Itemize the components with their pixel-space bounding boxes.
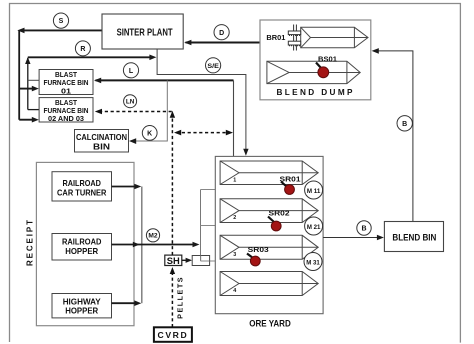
svg-text:K: K — [147, 131, 152, 138]
screw feeder icon BR01 — [288, 25, 300, 51]
wire M21 line — [201, 225, 305, 227]
node D circle — [214, 25, 229, 40]
svg-text:ORE YARD: ORE YARD — [249, 319, 291, 329]
wire M11 line — [201, 189, 305, 191]
stacker dot SR03 — [250, 256, 260, 266]
wire LN dashed line pellets to bin 02-03 — [95, 109, 173, 115]
CVRD box — [154, 327, 192, 342]
svg-text:2: 2 — [233, 215, 236, 221]
wire B line ore yard to blend bin — [323, 235, 384, 241]
node S circle — [53, 13, 68, 28]
wire M2 line from railroad hopper to ore yard collector — [112, 242, 200, 248]
svg-text:L: L — [129, 68, 134, 75]
wire receipt collector vertical — [141, 187, 143, 304]
svg-text:BLAST: BLAST — [55, 100, 78, 107]
ore pile bin 3 — [220, 235, 318, 259]
svg-text:S/E: S/E — [207, 63, 219, 70]
svg-text:CVRD: CVRD — [158, 330, 189, 340]
junction box — [192, 256, 209, 266]
wire D line from blend dump to sinter plant — [184, 40, 260, 46]
wire K arrow into calcination bin — [129, 138, 136, 144]
svg-text:SR03: SR03 — [248, 245, 269, 254]
conveyor pile BR01 — [301, 27, 368, 48]
svg-text:CALCINATION: CALCINATION — [76, 133, 127, 142]
calcination bin box — [75, 130, 129, 153]
svg-text:BLAST: BLAST — [55, 72, 78, 79]
svg-text:BS01: BS01 — [318, 54, 337, 63]
svg-text:RAILROAD: RAILROAD — [62, 179, 101, 188]
svg-text:SR02: SR02 — [269, 209, 290, 218]
blend dump box — [260, 20, 371, 100]
sinter plant box — [102, 14, 183, 49]
wire K stub from L line down to calcination bin — [133, 80, 167, 141]
wire R branch from bin 01 — [28, 79, 39, 81]
wire L riser down to ore yard — [233, 80, 235, 156]
svg-text:S: S — [59, 18, 64, 25]
tick SR03 — [247, 254, 253, 259]
svg-text:CAR TURNER: CAR TURNER — [57, 189, 106, 198]
svg-text:PELLETS: PELLETS — [175, 276, 184, 319]
svg-text:D: D — [219, 30, 224, 37]
svg-text:M2: M2 — [148, 233, 157, 240]
tick SR02 — [268, 217, 274, 223]
svg-text:RECEIPT: RECEIPT — [26, 220, 35, 266]
stacker dot SR01 — [285, 185, 295, 195]
node B circle lower — [357, 221, 371, 235]
wire M31 line from junction box — [210, 260, 304, 262]
svg-text:HOPPER: HOPPER — [65, 307, 98, 316]
blast furnace bin 02-03 box — [39, 98, 93, 124]
wire highway hopper line — [112, 300, 142, 306]
wire pellets dashed SH to LN junction — [170, 111, 175, 255]
svg-text:HIGHWAY: HIGHWAY — [63, 297, 102, 306]
node K circle — [142, 125, 157, 140]
svg-text:B: B — [402, 121, 407, 128]
svg-text:SH: SH — [167, 255, 180, 266]
svg-text:LN: LN — [126, 99, 135, 106]
svg-text:BLEND BIN: BLEND BIN — [392, 233, 436, 243]
node LN circle — [124, 95, 137, 108]
node S/E circle — [206, 58, 221, 73]
blend bin box — [384, 222, 443, 252]
svg-text:M 21: M 21 — [307, 224, 321, 231]
wire S line horizontal from sinter plant — [17, 28, 102, 34]
stacker dot BS01 — [318, 67, 329, 78]
svg-text:RAILROAD: RAILROAD — [62, 238, 102, 247]
wire pellets dashed CVRD to SH — [170, 267, 175, 327]
svg-text:3: 3 — [233, 252, 236, 258]
node M2 circle — [146, 229, 159, 242]
svg-text:HOPPER: HOPPER — [65, 247, 98, 256]
tick BS01 — [316, 63, 322, 69]
wire sinter bottom stub / S-E path — [157, 49, 249, 156]
svg-text:B: B — [361, 226, 366, 233]
node R circle — [75, 41, 90, 56]
receipt container — [36, 162, 134, 325]
svg-text:02 AND 03: 02 AND 03 — [48, 116, 84, 123]
svg-text:M 31: M 31 — [306, 259, 320, 266]
svg-text:M 11: M 11 — [307, 188, 321, 195]
tick SR01 — [281, 182, 287, 188]
node M31 circle — [304, 253, 322, 271]
svg-text:FURNACE BIN: FURNACE BIN — [44, 108, 89, 115]
wire R vertical collector — [25, 57, 30, 110]
ore pile bin 2 — [220, 199, 318, 223]
node L circle — [123, 63, 138, 78]
wire L line from ore yard riser into bin 01 — [94, 78, 234, 84]
svg-text:SINTER PLANT: SINTER PLANT — [117, 28, 173, 39]
wire SH to junction box — [182, 258, 192, 263]
conveyor pile BS01 — [267, 61, 360, 83]
svg-text:FURNACE BIN: FURNACE BIN — [44, 80, 89, 87]
railroad hopper box — [52, 234, 112, 261]
wire B riser from blend bin to blend dump — [372, 48, 413, 221]
ore pile bin 4 — [220, 272, 318, 296]
wire ore yard feed collector vertical — [200, 190, 202, 256]
svg-text:BIN: BIN — [93, 142, 110, 151]
wire S vertical feed — [18, 30, 20, 119]
node M11 circle — [305, 181, 323, 199]
svg-text:01: 01 — [61, 88, 71, 95]
wire S branch into blast furnace bin 01 — [19, 86, 39, 92]
node M21 circle — [305, 217, 323, 235]
blast furnace bin 01 box — [39, 70, 93, 96]
svg-text:BR01: BR01 — [266, 33, 285, 42]
svg-text:4: 4 — [233, 288, 236, 294]
svg-text:1: 1 — [233, 177, 236, 183]
wire R horizontal to sinter plant stub — [28, 55, 157, 61]
ore yard container — [215, 156, 323, 313]
wire S branch into blast furnace bin 02-03 — [19, 117, 39, 123]
railroad car turner box — [52, 172, 112, 201]
wire car turner line — [112, 184, 142, 190]
wire K dashed double arrow between pellets line and L riser — [174, 130, 233, 136]
node B circle upper — [397, 116, 412, 131]
SH box — [165, 255, 182, 266]
ore pile bin 1 — [220, 161, 318, 185]
wire R branch from bin 02-03 — [28, 109, 39, 111]
stacker dot SR02 — [271, 221, 281, 231]
svg-text:R: R — [80, 46, 85, 53]
highway hopper box — [52, 294, 112, 318]
